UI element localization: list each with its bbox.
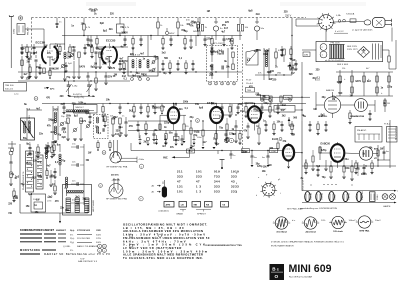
svg-text:0,5M: 0,5M <box>53 68 58 70</box>
heater bus bottom <box>302 202 397 204</box>
svg-text:333: 333 <box>214 185 220 189</box>
wire right edge <box>389 28 396 70</box>
dashed shield rail top <box>32 17 307 19</box>
rot label OP trafo <box>306 158 308 168</box>
svg-text:019: 019 <box>214 170 220 174</box>
components right of coil <box>275 48 285 66</box>
component value annotations <box>10 11 393 213</box>
wire V1a anode up <box>50 44 65 47</box>
svg-text:1M: 1M <box>332 99 335 101</box>
mid extra caps under V4 <box>246 123 260 146</box>
right col extra a <box>350 160 359 181</box>
label sweep2 <box>106 197 143 201</box>
rail junction dots <box>64 80 92 81</box>
decoupling row c2 <box>146 137 150 146</box>
button MB <box>192 202 201 208</box>
svg-text:125p: 125p <box>91 10 97 12</box>
drop x158 res pair <box>157 18 163 36</box>
svg-text:7M4 500: 7M4 500 <box>5 85 14 87</box>
decoupling row c7 <box>181 135 184 146</box>
svg-text:125p: 125p <box>289 125 295 127</box>
svg-text:22n: 22n <box>60 208 65 210</box>
svg-text:0m: 0m <box>262 157 265 159</box>
svg-text:0A79: 0A79 <box>122 60 128 63</box>
button AFM <box>164 202 174 208</box>
heater tube 3 <box>329 192 337 202</box>
svg-text:AFM: AFM <box>166 204 171 207</box>
output transformer box <box>63 185 92 216</box>
svg-text:70p: 70p <box>322 177 327 179</box>
svg-text:3n3: 3n3 <box>48 197 53 199</box>
svg-text:30p: 30p <box>312 78 317 80</box>
svg-text:8p2: 8p2 <box>105 59 110 61</box>
rot label ALNICO <box>138 130 141 138</box>
svg-text:8p2: 8p2 <box>74 115 79 117</box>
svg-text:125p: 125p <box>242 151 248 153</box>
svg-text:4n7: 4n7 <box>47 164 52 167</box>
wire x88 down <box>87 205 89 213</box>
mains plug <box>364 18 391 28</box>
switch column 2 <box>36 155 43 189</box>
wire balun to tube <box>25 29 44 47</box>
svg-text:KONDENSATORER ANGIVET: KONDENSATORER ANGIVET <box>20 229 54 232</box>
svg-text:0A79: 0A79 <box>194 131 200 134</box>
svg-text:HF SWEEP IND FRA: HF SWEEP IND FRA <box>107 165 128 168</box>
AFC arrow <box>44 87 55 91</box>
FM section bottom rail <box>18 80 130 82</box>
svg-text:1M: 1M <box>387 103 390 105</box>
coil column mid2 <box>65 177 67 196</box>
dial lamp 1 <box>382 194 388 200</box>
mid cluster resistors <box>54 118 83 143</box>
svg-text:101: 101 <box>196 170 202 174</box>
svg-text:125p: 125p <box>229 133 235 135</box>
svg-text:20mV: 20mV <box>375 220 381 222</box>
svg-text:3n3: 3n3 <box>61 104 66 106</box>
svg-text:0,5M: 0,5M <box>191 22 196 24</box>
svg-text:300Ω: 300Ω <box>14 28 16 34</box>
svg-text:6p8: 6p8 <box>100 23 105 25</box>
svg-text:1 3: 1 3 <box>196 190 201 194</box>
resistor R3 <box>43 68 45 74</box>
svg-text:70p: 70p <box>163 73 168 75</box>
svg-text:3n3: 3n3 <box>28 155 33 157</box>
svg-text:MB: MB <box>194 205 198 207</box>
svg-text:Jalin Dimd: Jalin Dimd <box>305 231 316 233</box>
svg-text:1M: 1M <box>350 96 353 98</box>
label 1n <box>59 22 62 24</box>
svg-text:125p: 125p <box>257 166 263 168</box>
label type plate <box>352 29 373 32</box>
svg-text:ECH81: ECH81 <box>322 192 324 200</box>
IF out coils box SP1 <box>128 54 158 77</box>
svg-text:0,5M: 0,5M <box>13 198 18 200</box>
bias network grid <box>336 70 393 96</box>
svg-text:22n: 22n <box>39 134 44 136</box>
label caps <box>325 60 344 62</box>
svg-text:NYM TRA.: NYM TRA. <box>359 229 369 232</box>
label 4n5 <box>186 20 199 34</box>
svg-text:70p: 70p <box>61 161 66 163</box>
svg-text:8p2: 8p2 <box>26 143 31 145</box>
oscillator alignment text <box>123 222 210 261</box>
svg-text:0m: 0m <box>254 157 257 159</box>
decoupling row c4 <box>164 135 167 145</box>
heater tube 4 <box>343 192 351 202</box>
audio bus left drop <box>130 143 132 151</box>
svg-text:5%: 5% <box>70 234 73 236</box>
tube socket bottom view <box>260 182 277 199</box>
svg-text:0A79: 0A79 <box>26 162 32 165</box>
boxed label C2M1 mid <box>187 149 195 153</box>
diode 0A79 <box>289 62 298 70</box>
svg-text:4 kHz: 4 kHz <box>139 159 145 161</box>
cap C2 <box>21 52 24 53</box>
distributed small components <box>20 36 373 177</box>
wire y97 bottom <box>240 96 310 98</box>
svg-text:LB: LB <box>181 205 184 207</box>
components under V2 <box>183 115 204 146</box>
svg-text:P(x):: P(x): <box>70 238 75 240</box>
svg-text:4n7: 4n7 <box>162 145 167 148</box>
grid cap label <box>55 44 58 46</box>
svg-text:47k: 47k <box>243 130 248 133</box>
IF box coil 1 <box>211 46 223 62</box>
svg-text:30p: 30p <box>62 128 67 130</box>
dial pointer <box>220 160 225 170</box>
B&O logo <box>270 264 285 280</box>
wire y75 seg <box>255 74 292 75</box>
heater tube 2 <box>316 192 324 202</box>
svg-text:6p8: 6p8 <box>248 11 253 13</box>
label 200kHz <box>111 175 119 177</box>
svg-text:6p8: 6p8 <box>28 194 33 196</box>
antenna symbol circle <box>18 16 22 20</box>
label 3-18p gang <box>72 86 78 88</box>
svg-text:1M: 1M <box>268 165 271 167</box>
components right col <box>384 98 390 112</box>
svg-text:GRAMMOFON: GRAMMOFON <box>350 115 365 118</box>
MF box dashed <box>94 115 109 139</box>
svg-text:200 kHz: 200 kHz <box>111 175 119 177</box>
svg-text:4n7: 4n7 <box>203 141 208 144</box>
svg-text:4u7: 4u7 <box>23 73 28 76</box>
svg-text:AVC: AVC <box>163 157 168 160</box>
rot text right edge <box>396 126 398 140</box>
svg-text:MÆRKET: MÆRKET <box>56 230 67 232</box>
svg-text:10V clock: 10V clock <box>333 231 343 233</box>
tube V5 circle socket <box>324 89 340 118</box>
circled refs F <box>224 138 233 142</box>
mixer grid components <box>94 47 111 69</box>
caps under rail y72 <box>87 72 108 91</box>
svg-text:al. type 50 wA 1500h: al. type 50 wA 1500h <box>352 29 373 32</box>
volume pot box <box>31 194 46 212</box>
components between V3 V4 <box>225 118 237 143</box>
drop x240 res pair <box>237 18 249 40</box>
svg-text:500V: 500V <box>96 234 102 236</box>
A2 arrow <box>152 185 161 188</box>
svg-text:22n: 22n <box>154 56 159 58</box>
wire AM coil up <box>27 110 42 118</box>
svg-text:O: O <box>275 274 279 279</box>
wire antenna lead <box>10 23 12 68</box>
drop x91 cap <box>89 36 92 49</box>
drop x178 res <box>177 18 185 36</box>
label lamps <box>383 205 391 208</box>
legend footnote <box>80 259 84 261</box>
svg-text:3n3: 3n3 <box>162 53 167 55</box>
svg-text:5k6: 5k6 <box>316 166 321 168</box>
svg-text:4u7: 4u7 <box>110 46 115 49</box>
model note line 2 <box>271 244 294 247</box>
table side marks <box>236 173 238 194</box>
decoupling row c3 <box>155 135 158 145</box>
wire V3 anode <box>223 104 232 115</box>
cap left of power box <box>302 50 316 57</box>
bias labels <box>315 68 370 82</box>
dashed divider x242.6 <box>242 44 244 152</box>
side text over begraenser <box>205 245 242 247</box>
grounds under V2 <box>183 141 216 149</box>
svg-text:EABC80: EABC80 <box>321 143 331 146</box>
tuning gang cap 2 <box>87 81 93 96</box>
svg-text:EBF89: EBF89 <box>349 192 351 199</box>
vert line x84 col <box>83 144 85 205</box>
svg-text:8p2: 8p2 <box>321 114 326 116</box>
socket pin labels <box>256 175 281 198</box>
label ferrit antenne <box>28 115 31 132</box>
bracket gram <box>176 210 186 216</box>
svg-text:30p: 30p <box>190 117 195 119</box>
svg-text:GRAM.: GRAM. <box>176 212 184 215</box>
svg-text:2M2: 2M2 <box>238 104 243 106</box>
label 300ohm <box>14 28 16 34</box>
svg-text:22n: 22n <box>253 109 258 111</box>
svg-text:STYROFLEX: STYROFLEX <box>77 230 91 232</box>
coil vert small <box>45 148 47 170</box>
svg-text:6p8: 6p8 <box>62 137 67 139</box>
power transformer <box>329 45 345 59</box>
component cluster left of V1a <box>20 55 37 79</box>
tuning gang cap 1 <box>66 81 72 96</box>
drop x120 cluster box <box>117 18 131 36</box>
wires around V5 <box>316 92 375 112</box>
svg-text:B+D(2%): B+D(2%) <box>73 94 82 96</box>
label indkoblet <box>159 210 169 213</box>
svg-text:6p8: 6p8 <box>214 52 219 54</box>
label plus100khz <box>112 179 121 181</box>
label heater dim <box>334 31 348 33</box>
cathode resistor V1a <box>56 52 58 58</box>
tube V1b label ECC85 <box>106 39 116 43</box>
EM84 wire right <box>301 62 302 121</box>
cap C4 <box>35 60 38 61</box>
svg-text:4n7: 4n7 <box>140 53 145 56</box>
box 7M4 divider <box>4 83 27 92</box>
cluster right of MF <box>111 117 127 137</box>
svg-text:125V: 125V <box>96 238 102 240</box>
svg-text:100mV: 100mV <box>349 220 356 222</box>
labels mid cluster <box>61 116 125 119</box>
svg-text:4n7: 4n7 <box>291 72 296 75</box>
ferrite bar black <box>162 180 167 198</box>
svg-text:0A79: 0A79 <box>109 67 115 70</box>
tube V4 EBF89 <box>248 104 261 131</box>
svg-text:125p: 125p <box>164 122 170 124</box>
voltage table <box>177 170 239 194</box>
label 100n <box>197 137 202 139</box>
dial lamp 2 <box>390 194 396 200</box>
svg-text:125p: 125p <box>206 39 212 41</box>
osc unit box M84 <box>74 105 98 114</box>
dim arrow B+D <box>68 94 95 97</box>
svg-text:LOG: LOG <box>47 201 52 203</box>
svg-text:FM AFST.: FM AFST. <box>357 129 367 132</box>
waveform circle 1 <box>273 217 290 234</box>
drop x151 res <box>150 36 152 41</box>
svg-text:333: 333 <box>177 175 183 179</box>
svg-text:POLYESTER: POLYESTER <box>77 238 90 240</box>
svg-text:4 x 6,3 V: 4 x 6,3 V <box>335 31 344 33</box>
svg-text:25V: 25V <box>124 32 129 34</box>
svg-text:PRI 220V: PRI 220V <box>331 42 341 44</box>
sweep1 dim lines <box>117 157 144 164</box>
waveform circle 3 <box>329 216 346 233</box>
svg-text:100k: 100k <box>183 102 189 104</box>
svg-text:8p2: 8p2 <box>191 146 196 148</box>
svg-text:TA CHASSIS-STEL MED ALLE KNAPP: TA CHASSIS-STEL MED ALLE KNAPPER IND. <box>123 256 203 260</box>
svg-text:1M: 1M <box>313 109 316 111</box>
svg-text:125p: 125p <box>387 86 393 88</box>
svg-text:22n: 22n <box>38 176 43 178</box>
svg-text:AFC: AFC <box>50 88 55 91</box>
svg-text:(+C): (+C) <box>14 94 19 96</box>
svg-text:3n3: 3n3 <box>75 197 80 199</box>
heater tube 6 rect <box>370 192 380 202</box>
svg-text:efter Band: efter Band <box>276 230 287 233</box>
tube V2 label ECH81 <box>152 106 162 110</box>
OT winding 3 <box>85 198 90 212</box>
svg-text:SØLV: SØLV <box>169 33 175 35</box>
IF box coil 2 <box>211 64 223 79</box>
svg-text:4n7: 4n7 <box>36 108 41 111</box>
svg-text:333: 333 <box>231 175 237 179</box>
wire x196 vert <box>195 36 197 47</box>
svg-text:70p: 70p <box>21 184 26 186</box>
svg-text:131: 131 <box>177 185 183 189</box>
svg-text:533: 533 <box>214 190 220 194</box>
svg-text:ECC85: ECC85 <box>36 41 46 45</box>
svg-text:3n3: 3n3 <box>50 132 55 134</box>
svg-text:22n: 22n <box>332 96 337 98</box>
svg-text:FM ANT.: FM ANT. <box>27 26 30 35</box>
ratio detector box <box>274 106 295 113</box>
box right of it <box>387 127 398 143</box>
left column jack detail <box>8 148 14 186</box>
small cluster near 248,80 <box>246 80 255 93</box>
svg-text:22n: 22n <box>26 78 31 80</box>
bus component x218 <box>217 151 219 155</box>
svg-text:3233: 3233 <box>231 185 239 189</box>
svg-text:233: 233 <box>196 175 202 179</box>
svg-text:25V: 25V <box>222 25 227 27</box>
AVC arrow <box>163 151 190 160</box>
AM coil row horizontal <box>66 110 89 112</box>
svg-text:T200mA: T200mA <box>346 13 355 16</box>
svg-text:SPREDT: SPREDT <box>197 213 207 215</box>
svg-text:C2M: C2M <box>188 151 193 153</box>
svg-text:500V: 500V <box>96 242 102 244</box>
DIN socket circle <box>355 99 368 112</box>
svg-text:EF89: EF89 <box>335 194 337 200</box>
svg-text:EN PÅ TRANSFORMATOR: EN PÅ TRANSFORMATOR <box>271 244 294 247</box>
svg-text:d.v.: d.v. <box>292 220 296 222</box>
wave labels right <box>292 220 381 222</box>
label set fra <box>287 208 303 211</box>
drop x167 lamp <box>165 28 175 35</box>
svg-text:22n: 22n <box>209 75 214 77</box>
svg-text:5%: 5% <box>70 250 73 252</box>
waveform circle 2 <box>302 217 319 234</box>
left column extra caps <box>49 170 56 195</box>
svg-text:1M: 1M <box>292 135 295 137</box>
svg-text:4n7: 4n7 <box>54 45 59 48</box>
svg-text:22n: 22n <box>219 117 224 119</box>
svg-text:4u7: 4u7 <box>51 59 56 62</box>
wire y130 mid <box>128 130 242 132</box>
svg-text:25V: 25V <box>129 126 134 128</box>
svg-text:50u: 50u <box>169 132 174 134</box>
label headphone <box>318 115 365 118</box>
diode arrow up <box>288 117 291 126</box>
electrolytic bank <box>373 44 382 60</box>
svg-text:Q UND:: Q UND: <box>63 246 71 248</box>
V6 grid components <box>277 140 283 151</box>
drop x198 res <box>197 18 199 36</box>
label grundindstilling <box>300 207 337 210</box>
svg-text:22n: 22n <box>179 109 184 111</box>
svg-text:70p: 70p <box>66 77 71 79</box>
svg-text:HF SWEEP IND FRA: HF SWEEP IND FRA <box>106 198 127 201</box>
svg-text:(indkoblet): (indkoblet) <box>159 210 169 213</box>
switch column 1 <box>26 151 34 192</box>
power box <box>316 42 383 62</box>
boxed ref C2M1 <box>261 95 270 99</box>
decoupling cap 1n <box>56 18 59 28</box>
svg-text:50u: 50u <box>136 73 141 75</box>
label 3-18p <box>68 63 72 65</box>
svg-text:C2M: C2M <box>271 151 276 153</box>
svg-text:30p: 30p <box>51 175 56 177</box>
svg-text:1M: 1M <box>94 64 97 66</box>
svg-text:+100 kHz: +100 kHz <box>112 179 121 181</box>
mid cluster caps <box>72 47 80 79</box>
svg-text:4n7: 4n7 <box>115 133 120 136</box>
svg-text:KB: KB <box>206 205 210 207</box>
svg-text:M84 H 2: M84 H 2 <box>76 107 85 109</box>
svg-text:25V: 25V <box>108 77 113 79</box>
bridge rectifier <box>358 47 370 58</box>
extra junction dots <box>173 103 303 154</box>
svg-text:70p: 70p <box>193 135 198 137</box>
components left of V7 <box>311 150 327 171</box>
scan artifact smudge <box>86 2 366 6</box>
tube V2 ECH81 <box>168 104 179 130</box>
tube V1b ECC85 <box>101 44 117 67</box>
mains voltage selector <box>320 44 327 58</box>
more cluster parts <box>12 46 297 202</box>
